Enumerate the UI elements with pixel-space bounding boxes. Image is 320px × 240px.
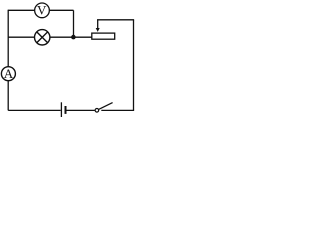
battery B1 long plate <box>60 102 62 117</box>
wire: switch to bottom-right corner <box>101 109 134 111</box>
svg-text:V: V <box>37 3 47 18</box>
wire: top horizontal (voltmeter branch) <box>8 9 73 11</box>
rheostat wiper arrow <box>96 20 100 32</box>
wire: left vertical main <box>7 10 9 111</box>
node: junction dot <box>71 35 76 40</box>
wire: lamp branch horizontal <box>8 36 92 38</box>
switch S1 pivot <box>95 109 99 113</box>
wire: wiper to top-right horizontal <box>97 19 134 21</box>
rheostat R1 body <box>92 33 115 39</box>
wire: right vertical <box>133 20 135 111</box>
switch S1 lever <box>99 103 113 110</box>
ammeter A1 <box>1 66 15 81</box>
lamp L1 <box>35 30 50 45</box>
voltmeter V1 <box>35 3 50 18</box>
battery B1 short plate <box>65 106 67 114</box>
wire: vertical from top branch down to junction <box>73 10 75 37</box>
wire: battery to switch <box>66 109 95 111</box>
svg-text:A: A <box>4 66 14 81</box>
wire: bottom left (corner to battery) <box>8 109 61 111</box>
